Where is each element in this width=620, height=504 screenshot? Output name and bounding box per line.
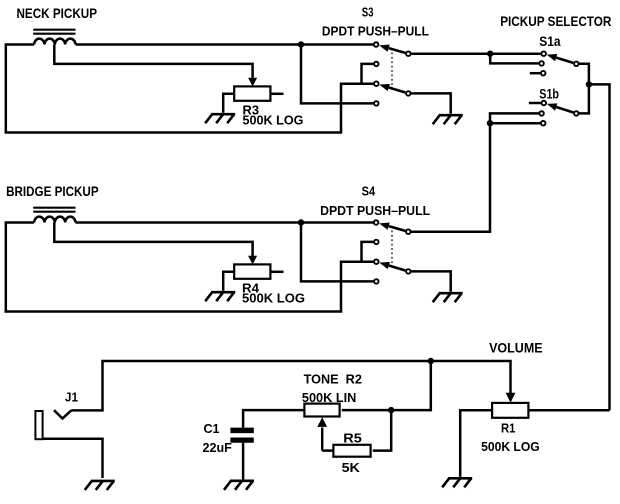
contact S3 pole1 throw2 <box>374 62 379 67</box>
node S1a feed junction <box>487 51 493 57</box>
wire S1a contact3 stub <box>530 72 541 75</box>
svg-text:C1: C1 <box>204 421 220 436</box>
wire R4 right lead stub <box>270 271 283 274</box>
contact S1a throw3 <box>541 71 546 76</box>
wire selector output to R1 right lead <box>589 84 610 410</box>
ground R1 <box>442 478 472 487</box>
R3 wiper arrow <box>248 78 257 87</box>
svg-text:S1b: S1b <box>539 86 559 102</box>
contact S3 pole1 throw1 <box>374 42 379 47</box>
svg-text:S4: S4 <box>362 184 376 199</box>
ground R3 <box>205 114 235 123</box>
contact S3 pole1 common <box>406 51 411 56</box>
wire S1a common to S1b common <box>579 64 589 114</box>
svg-text:R5: R5 <box>343 430 362 445</box>
wire S3 pole1 throw2 link <box>362 64 374 84</box>
contact S4 pole1 throw1 <box>374 220 379 225</box>
jack J1 tip spring <box>54 410 71 418</box>
contact S3 pole2 throw1 <box>374 81 379 86</box>
contact S1b common <box>574 111 579 116</box>
node tone branch junction <box>428 358 434 364</box>
contact S1a throw2 <box>539 61 544 66</box>
svg-text:PICKUP SELECTOR: PICKUP SELECTOR <box>500 13 611 29</box>
R4 wiper arrow <box>248 256 257 265</box>
neck pickup L1 core bars <box>33 30 75 34</box>
svg-text:R1: R1 <box>501 420 515 435</box>
wire neck hot to S3 <box>76 43 374 46</box>
wire R5 right lead <box>373 410 391 451</box>
wire R5 left lead <box>322 449 333 452</box>
potentiometer R3 body <box>234 86 270 100</box>
wire bridge hot branch to S4 pole2 throw2 <box>301 223 373 282</box>
switch S1b lever <box>547 103 574 112</box>
contact S4 pole2 throw2 <box>374 279 379 284</box>
contact S1b throw3 <box>541 121 546 126</box>
contact S4 pole2 common <box>406 269 411 274</box>
wire S4 pole2 common to ground <box>411 271 451 291</box>
switch S3 pole1 lever <box>379 45 405 53</box>
contact S3 pole2 throw2 <box>374 101 379 106</box>
wire bridge cold: left side, bottom, up to S4 throws <box>6 223 374 312</box>
wire neck hot branch to S3 pole2 throw2 <box>301 45 373 104</box>
potentiometer R4 body <box>234 264 270 278</box>
svg-text:S1a: S1a <box>539 33 560 49</box>
jack J1 plug body <box>35 411 42 439</box>
ground S4 <box>433 293 463 302</box>
svg-text:DPDT PUSH–PULL: DPDT PUSH–PULL <box>320 203 430 218</box>
contact S4 pole1 common <box>406 229 411 234</box>
svg-text:J1: J1 <box>65 391 78 405</box>
capacitor C1 top plate <box>230 428 253 434</box>
svg-text:NECK PICKUP: NECK PICKUP <box>17 5 98 21</box>
contact S3 pole2 common <box>406 91 411 96</box>
ground C1 <box>224 481 254 490</box>
node selector output junction <box>586 81 592 87</box>
svg-text:500K LOG: 500K LOG <box>481 439 540 454</box>
wire R4 left lead to ground <box>223 272 234 291</box>
contact S4 pole2 throw1 <box>374 259 379 264</box>
switch S3 gang link (dashed) <box>391 48 393 92</box>
wire R3 left lead to ground <box>223 94 234 113</box>
wire S1b throw3 <box>490 122 540 125</box>
wire S4 pole1 throw2 link <box>362 242 374 262</box>
wire S1b contact1 stub <box>529 102 541 105</box>
wire junction down to S1a contact 2 <box>490 54 539 64</box>
contact S1a common <box>574 62 579 67</box>
wire output bus: J1 tip to R1 wiper <box>71 361 510 410</box>
wire J1 sleeve to ground <box>43 439 103 478</box>
svg-text:500K LOG: 500K LOG <box>242 291 305 306</box>
contact S1b throw1 <box>542 101 547 106</box>
wire C1 bottom lead to ground <box>242 443 245 480</box>
wire neck tap to R3 wiper <box>54 45 252 79</box>
wire bridge hot to S4 <box>76 221 374 224</box>
svg-text:500K LOG: 500K LOG <box>243 113 304 128</box>
resistor R5 body <box>333 445 370 457</box>
ground S3 <box>433 115 463 124</box>
wire R3 right lead stub <box>270 93 283 96</box>
node S1b throw3 junction <box>487 120 493 126</box>
wire S3 pole2 common to ground <box>411 93 451 113</box>
potentiometer R1 body <box>492 403 528 418</box>
switch S4 pole2 lever <box>379 262 405 271</box>
contact S1b throw2 <box>539 111 544 116</box>
switch S4 pole1 lever <box>379 223 405 231</box>
svg-text:TONE R2: TONE R2 <box>304 372 362 387</box>
svg-text:VOLUME: VOLUME <box>489 340 542 356</box>
bridge pickup L2 coil <box>34 217 75 223</box>
wire tone branch down to R2 right lead <box>342 361 431 410</box>
contact S4 pole1 throw2 <box>374 240 379 245</box>
svg-text:22uF: 22uF <box>203 440 232 455</box>
neck pickup L1 coil <box>34 39 75 45</box>
capacitor C1 bottom plate <box>230 437 253 442</box>
svg-text:BRIDGE PICKUP: BRIDGE PICKUP <box>6 183 99 199</box>
ground R4 <box>205 292 235 301</box>
contact S1a throw1 <box>541 51 546 56</box>
wire R1 right lead <box>528 409 609 412</box>
wire bridge tap to R4 wiper <box>54 223 252 257</box>
wire S1b throw2 to S4 pole1 common <box>411 113 539 231</box>
wire neck cold: left side, bottom, up to S3 throws <box>6 45 374 133</box>
svg-text:DPDT PUSH–PULL: DPDT PUSH–PULL <box>322 24 429 39</box>
svg-text:S3: S3 <box>362 5 374 20</box>
wire R2 left lead to C1 <box>243 410 304 428</box>
node neck hot junction <box>298 41 304 47</box>
potentiometer R2 body <box>304 404 339 417</box>
wire S3 pole1 common to selector S1a <box>411 52 541 55</box>
node bridge hot junction <box>298 219 304 225</box>
switch S1a lever <box>547 54 574 63</box>
switch S4 gang link (dashed) <box>391 226 393 270</box>
ground J1 <box>85 481 115 490</box>
svg-text:5K: 5K <box>342 460 361 475</box>
node R5 branch junction <box>388 407 394 413</box>
wire R1 left lead to ground <box>460 410 492 477</box>
R1 wiper arrow <box>506 393 516 403</box>
switch S3 pole2 lever <box>379 84 405 93</box>
R2 wiper arrow and stem <box>317 417 327 450</box>
bridge pickup L2 core bars <box>33 208 75 212</box>
